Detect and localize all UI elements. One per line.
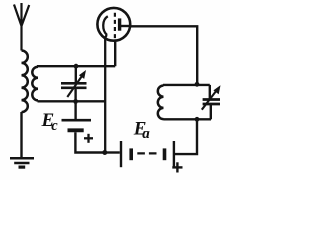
capacitor C2 plates <box>203 100 220 105</box>
grid tank coil L2 <box>32 67 38 101</box>
wire: filament lead down <box>105 35 107 152</box>
wire: Ec to bottom rail <box>75 132 105 152</box>
node: bottom center junction <box>102 150 107 155</box>
battery Ea plate 3 (short) <box>163 148 167 160</box>
plate tank coil L3 <box>158 86 164 120</box>
battery Ec bottom plate (short) <box>68 128 84 132</box>
tube grid (dashed) <box>114 13 116 40</box>
node: tank bottom junction <box>73 99 78 104</box>
plus sign Ec <box>84 134 93 143</box>
wire L1 to ground <box>20 112 22 157</box>
battery Ea plate 4 (long) <box>173 141 175 167</box>
wire: battery dashed middle <box>137 152 158 154</box>
node: plate tank top junction <box>195 82 200 87</box>
battery Ea plate 1 (long) <box>120 141 122 167</box>
wire: right tank bottom rail <box>164 118 212 120</box>
plus sign Ea <box>172 162 182 172</box>
capacitor C2 top lead <box>209 85 211 99</box>
label Ea <box>133 119 151 143</box>
tube plate <box>118 18 121 30</box>
antenna <box>14 3 29 51</box>
wire: tank top rail <box>37 65 115 67</box>
node: plate tank bottom junction <box>195 117 200 122</box>
tube filament <box>103 16 108 35</box>
battery Ec top plate (long) <box>62 119 92 122</box>
capacitor C2 bottom lead <box>210 104 212 119</box>
battery Ea plate 2 (short) <box>129 148 133 160</box>
svg-text:a: a <box>142 126 150 142</box>
label Ec <box>41 110 59 134</box>
capacitor C1 bottom lead <box>74 88 76 101</box>
wire: tank bottom rail <box>38 100 106 102</box>
tube U1 envelope <box>97 8 130 41</box>
ground <box>10 158 34 167</box>
svg-text:c: c <box>51 118 58 134</box>
wire: grid lead down <box>114 41 116 67</box>
tube plate lead <box>120 25 131 27</box>
node: tank top junction <box>74 64 79 69</box>
capacitor C1 arrow <box>67 70 86 97</box>
wire: tank bottom to battery <box>175 119 197 154</box>
capacitor C2 arrow <box>202 85 221 109</box>
capacitor C1 top lead <box>75 66 77 83</box>
wire: right tank top rail <box>163 84 210 86</box>
wire: bottom rail to battery <box>105 151 120 153</box>
wire: tank bottom to Ec <box>74 101 76 119</box>
capacitor C1 plates <box>61 83 87 88</box>
antenna coil L1 <box>22 51 28 113</box>
wire: plate to right tank <box>131 26 198 84</box>
